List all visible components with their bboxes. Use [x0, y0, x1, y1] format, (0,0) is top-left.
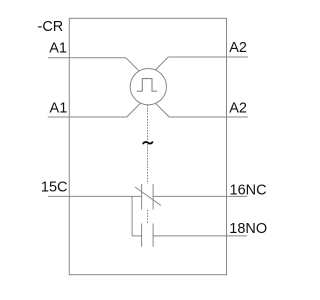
NC contact slash (normally closed marker) — [135, 187, 161, 206]
svg-text:-CR: -CR — [38, 19, 64, 35]
wire branch horizontal to NO contact — [132, 235, 142, 237]
svg-text:A1: A1 — [49, 41, 67, 57]
wire A1 lower diagonal to coil — [127, 95, 149, 117]
wire 18NO horizontal — [153, 235, 247, 237]
wire A1 lower horizontal — [48, 116, 127, 118]
svg-text:A2: A2 — [229, 100, 247, 116]
NO contact right bar — [152, 224, 154, 247]
NO contact left bar — [141, 224, 143, 247]
wire 15C horizontal to NC contact — [48, 195, 142, 197]
wire A1 top horizontal — [48, 57, 126, 59]
wire A2 lower horizontal — [169, 116, 248, 118]
AC supply symbol ~ — [143, 142, 152, 144]
mechanical link (dashed actuating line, coil to NC contact) — [147, 105, 149, 184]
enclosure box — [69, 18, 226, 274]
svg-text:15C: 15C — [41, 179, 68, 195]
NC contact right bar — [152, 184, 154, 210]
wire branch junction down from 15C — [131, 196, 133, 236]
wire A2 lower diagonal to coil — [148, 96, 169, 117]
pulse (on-delay timing) symbol inside coil — [137, 79, 157, 92]
wire A1 top diagonal to coil — [126, 58, 149, 80]
wire A2 top diagonal to coil — [148, 57, 168, 77]
svg-text:18NO: 18NO — [229, 221, 267, 237]
wire 16NC horizontal — [153, 195, 247, 197]
NC contact left bar — [141, 184, 143, 210]
timed relay coil -CR (circle) — [130, 69, 166, 105]
svg-text:A1: A1 — [50, 100, 68, 116]
svg-text:A2: A2 — [229, 40, 247, 56]
mechanical link (dashed actuating line, NC to NO contact) — [147, 210, 149, 224]
wire A2 top horizontal — [168, 56, 248, 58]
